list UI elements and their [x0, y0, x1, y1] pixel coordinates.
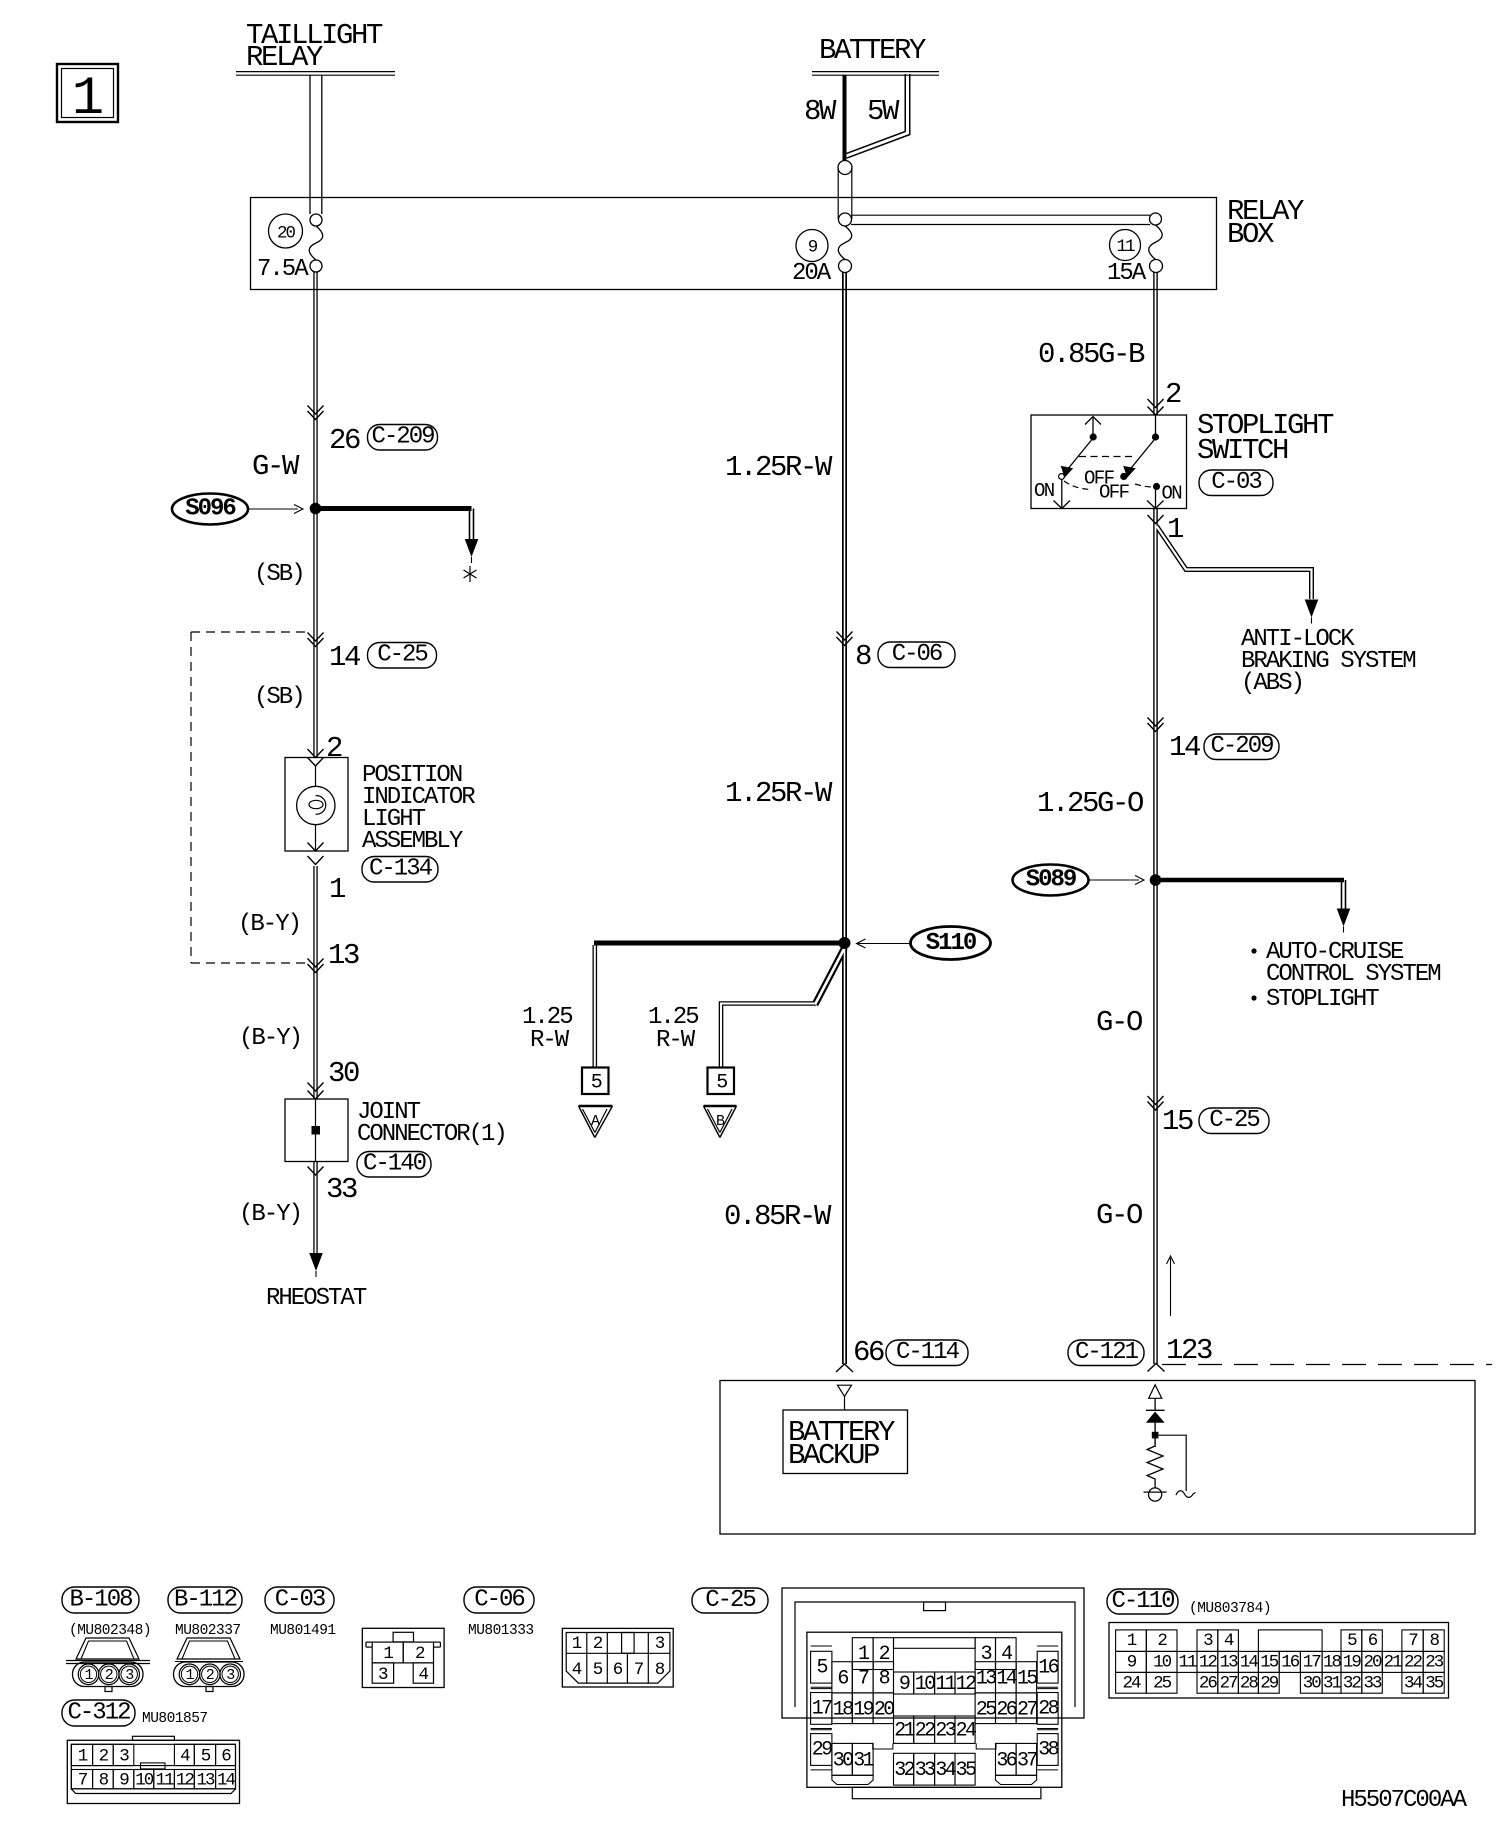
svg-text:8: 8: [879, 1667, 890, 1690]
svg-text:12: 12: [1199, 1653, 1218, 1673]
svg-text:G-O: G-O: [1096, 1006, 1142, 1039]
svg-text:18: 18: [833, 1698, 853, 1721]
svg-text:13: 13: [1220, 1653, 1239, 1673]
svg-text:24: 24: [1122, 1674, 1141, 1694]
svg-text:3: 3: [125, 1667, 134, 1684]
svg-text:2: 2: [326, 732, 342, 765]
svg-text:ON: ON: [1162, 483, 1182, 505]
svg-text:35: 35: [956, 1759, 976, 1782]
svg-text:8: 8: [655, 1660, 665, 1680]
svg-text:C-209: C-209: [1210, 733, 1273, 760]
svg-text:10: 10: [135, 1770, 154, 1790]
svg-text:1: 1: [84, 1667, 93, 1684]
svg-text:34: 34: [935, 1759, 955, 1782]
svg-text:21: 21: [1384, 1653, 1403, 1673]
svg-text:2: 2: [206, 1667, 214, 1684]
svg-text:17: 17: [812, 1698, 832, 1721]
svg-text:ON: ON: [1034, 480, 1054, 502]
svg-text:2: 2: [1165, 378, 1181, 411]
svg-text:1.25R-W: 1.25R-W: [725, 451, 833, 484]
svg-text:C-209: C-209: [371, 424, 434, 451]
svg-text:BOX: BOX: [1227, 218, 1274, 251]
svg-text:C-140: C-140: [363, 1151, 426, 1178]
svg-text:15: 15: [1260, 1653, 1279, 1673]
svg-text:8: 8: [855, 640, 871, 673]
svg-text:MU802337: MU802337: [175, 1623, 241, 1639]
svg-text:B: B: [716, 1113, 725, 1130]
svg-text:(MU803784): (MU803784): [1189, 1601, 1271, 1617]
svg-text:RELAY: RELAY: [246, 41, 323, 74]
svg-text:B-108: B-108: [69, 1586, 132, 1613]
svg-text:20: 20: [1364, 1653, 1383, 1673]
svg-text:G-W: G-W: [252, 450, 300, 483]
svg-text:9: 9: [899, 1673, 910, 1696]
svg-text:(B-Y): (B-Y): [238, 911, 300, 938]
svg-text:C-25: C-25: [705, 1587, 755, 1614]
svg-text:(B-Y): (B-Y): [239, 1025, 301, 1052]
svg-text:11: 11: [156, 1770, 175, 1790]
svg-text:33: 33: [1364, 1674, 1383, 1694]
svg-text:27: 27: [1017, 1698, 1037, 1721]
svg-text:2: 2: [1157, 1631, 1167, 1651]
svg-text:30: 30: [328, 1057, 359, 1090]
svg-text:21: 21: [894, 1720, 915, 1743]
svg-text:5: 5: [201, 1747, 211, 1767]
svg-text:C-121: C-121: [1075, 1339, 1139, 1366]
svg-text:5: 5: [593, 1660, 603, 1680]
svg-text:2: 2: [593, 1634, 603, 1654]
svg-text:14: 14: [217, 1770, 236, 1790]
svg-text:5: 5: [716, 1072, 727, 1095]
svg-text:32: 32: [1343, 1674, 1362, 1694]
svg-text:(SB): (SB): [254, 561, 304, 588]
svg-text:14: 14: [1240, 1653, 1259, 1673]
svg-text:11: 11: [1116, 237, 1135, 257]
svg-text:2: 2: [105, 1667, 113, 1684]
svg-text:C-25: C-25: [1209, 1107, 1259, 1134]
svg-text:9: 9: [119, 1770, 129, 1790]
svg-text:BATTERY: BATTERY: [819, 34, 926, 67]
svg-text:C-110: C-110: [1111, 1588, 1174, 1615]
svg-text:6: 6: [613, 1660, 623, 1680]
svg-text:11: 11: [1178, 1653, 1197, 1673]
svg-text:6: 6: [837, 1667, 848, 1690]
svg-text:12: 12: [956, 1673, 976, 1696]
svg-text:28: 28: [1240, 1674, 1259, 1694]
svg-text:STOPLIGHT: STOPLIGHT: [1266, 986, 1379, 1013]
svg-text:1: 1: [1127, 1631, 1137, 1651]
svg-text:B-112: B-112: [174, 1586, 237, 1613]
svg-text:29: 29: [1260, 1674, 1279, 1694]
svg-text:31: 31: [1323, 1674, 1342, 1694]
svg-text:11: 11: [935, 1673, 956, 1696]
svg-text:23: 23: [1425, 1653, 1444, 1673]
svg-text:1: 1: [72, 69, 104, 130]
svg-text:15: 15: [1017, 1667, 1037, 1690]
svg-text:23: 23: [935, 1720, 955, 1743]
svg-text:13: 13: [328, 939, 359, 972]
svg-text:RHEOSTAT: RHEOSTAT: [266, 1285, 367, 1312]
svg-text:(B-Y): (B-Y): [239, 1201, 301, 1228]
svg-text:10: 10: [1153, 1653, 1172, 1673]
svg-text:4: 4: [1001, 1643, 1012, 1666]
svg-text:31: 31: [853, 1749, 874, 1772]
svg-text:35: 35: [1425, 1674, 1444, 1694]
svg-text:14: 14: [996, 1667, 1016, 1690]
svg-text:SWITCH: SWITCH: [1197, 434, 1288, 467]
svg-text:0.85R-W: 0.85R-W: [724, 1200, 832, 1233]
svg-text:1: 1: [329, 873, 345, 906]
svg-text:5: 5: [816, 1656, 827, 1679]
svg-text:ASSEMBLY: ASSEMBLY: [362, 828, 463, 855]
svg-text:13: 13: [976, 1667, 996, 1690]
svg-text:R-W: R-W: [656, 1027, 696, 1054]
svg-text:66: 66: [853, 1336, 884, 1369]
svg-text:C-134: C-134: [369, 856, 433, 883]
svg-text:18: 18: [1323, 1653, 1342, 1673]
svg-text:6: 6: [1368, 1631, 1378, 1651]
svg-text:7: 7: [78, 1770, 88, 1790]
svg-text:MU801491: MU801491: [270, 1623, 336, 1639]
svg-text:S096: S096: [185, 496, 236, 523]
svg-text:123: 123: [1166, 1334, 1212, 1367]
svg-text:8: 8: [99, 1770, 109, 1790]
svg-text:19: 19: [1343, 1653, 1362, 1673]
svg-text:4: 4: [1224, 1631, 1234, 1651]
svg-text:2: 2: [99, 1747, 109, 1767]
svg-text:1: 1: [1167, 513, 1183, 546]
svg-text:33: 33: [326, 1173, 357, 1206]
svg-text:R-W: R-W: [530, 1027, 570, 1054]
svg-text:15A: 15A: [1107, 260, 1147, 287]
svg-text:9: 9: [1127, 1653, 1137, 1673]
svg-text:25: 25: [976, 1698, 996, 1721]
svg-text:19: 19: [853, 1698, 873, 1721]
svg-text:26: 26: [329, 424, 360, 457]
svg-text:1: 1: [383, 1644, 393, 1664]
svg-text:24: 24: [956, 1720, 976, 1743]
svg-text:C-03: C-03: [275, 1586, 325, 1613]
svg-text:0.85G-B: 0.85G-B: [1038, 338, 1145, 371]
svg-text:(ABS): (ABS): [1241, 670, 1303, 697]
svg-text:16: 16: [1281, 1653, 1300, 1673]
svg-text:20A: 20A: [792, 260, 832, 287]
svg-text:4: 4: [572, 1660, 582, 1680]
svg-text:4: 4: [419, 1665, 429, 1685]
svg-text:4: 4: [180, 1747, 190, 1767]
svg-text:MU801857: MU801857: [142, 1711, 208, 1727]
svg-text:36: 36: [996, 1749, 1016, 1772]
svg-text:10: 10: [915, 1673, 935, 1696]
svg-text:26: 26: [996, 1698, 1016, 1721]
svg-text:9: 9: [808, 238, 818, 258]
svg-text:C-06: C-06: [474, 1586, 524, 1613]
svg-text:1.25R-W: 1.25R-W: [725, 777, 833, 810]
svg-text:MU801333: MU801333: [468, 1623, 534, 1639]
svg-text:22: 22: [1404, 1653, 1423, 1673]
svg-text:7: 7: [634, 1660, 644, 1680]
svg-text:17: 17: [1303, 1653, 1322, 1673]
svg-text:C-06: C-06: [892, 641, 942, 668]
svg-text:7: 7: [1408, 1631, 1418, 1651]
svg-text:37: 37: [1017, 1749, 1037, 1772]
svg-text:A: A: [591, 1113, 600, 1130]
svg-text:3: 3: [119, 1747, 129, 1767]
svg-text:C-25: C-25: [377, 642, 427, 669]
svg-text:26: 26: [1199, 1674, 1218, 1694]
svg-text:CONTROL SYSTEM: CONTROL SYSTEM: [1266, 961, 1440, 988]
svg-text:CONNECTOR(1): CONNECTOR(1): [357, 1121, 506, 1148]
svg-text:14: 14: [1169, 731, 1200, 764]
svg-text:H5507C00AA: H5507C00AA: [1341, 1787, 1468, 1814]
svg-text:1: 1: [78, 1747, 88, 1767]
svg-text:3: 3: [378, 1665, 388, 1685]
svg-text:15: 15: [1162, 1105, 1193, 1138]
svg-text:33: 33: [915, 1759, 935, 1782]
svg-text:C-312: C-312: [67, 1699, 130, 1726]
svg-text:30: 30: [833, 1749, 853, 1772]
svg-text:S089: S089: [1026, 867, 1076, 894]
svg-text:1.25G-O: 1.25G-O: [1037, 787, 1143, 820]
svg-text:12: 12: [176, 1770, 195, 1790]
svg-text:C-03: C-03: [1211, 469, 1261, 496]
svg-text:38: 38: [1038, 1739, 1058, 1762]
svg-text:30: 30: [1303, 1674, 1322, 1694]
svg-text:S110: S110: [926, 930, 977, 957]
svg-text:34: 34: [1404, 1674, 1423, 1694]
svg-text:7: 7: [858, 1667, 869, 1690]
svg-text:20: 20: [874, 1698, 894, 1721]
svg-text:(SB): (SB): [254, 684, 304, 711]
svg-text:6: 6: [221, 1747, 231, 1767]
svg-text:(MU802348): (MU802348): [69, 1623, 151, 1639]
svg-text:20: 20: [277, 224, 296, 244]
svg-text:C-114: C-114: [896, 1339, 960, 1366]
svg-text:13: 13: [196, 1770, 215, 1790]
svg-text:16: 16: [1038, 1656, 1058, 1679]
svg-text:28: 28: [1038, 1698, 1058, 1721]
svg-text:G-O: G-O: [1096, 1199, 1142, 1232]
svg-text:5: 5: [591, 1072, 602, 1095]
svg-text:25: 25: [1153, 1674, 1172, 1694]
svg-text:5: 5: [1347, 1631, 1357, 1651]
svg-text:32: 32: [894, 1759, 914, 1782]
svg-text:8: 8: [1429, 1631, 1439, 1651]
svg-text:3: 3: [655, 1634, 665, 1654]
svg-text:7.5A: 7.5A: [257, 256, 309, 283]
svg-text:3: 3: [1203, 1631, 1213, 1651]
svg-text:14: 14: [329, 641, 360, 674]
svg-text:3: 3: [226, 1667, 235, 1684]
svg-text:5W: 5W: [867, 95, 900, 128]
svg-text:29: 29: [812, 1739, 832, 1762]
svg-text:8W: 8W: [804, 95, 837, 128]
svg-text:1: 1: [185, 1667, 194, 1684]
svg-text:1: 1: [572, 1634, 582, 1654]
svg-text:27: 27: [1220, 1674, 1239, 1694]
svg-text:2: 2: [415, 1644, 425, 1664]
svg-text:OFF: OFF: [1099, 482, 1130, 504]
svg-text:22: 22: [915, 1720, 935, 1743]
svg-text:BACKUP: BACKUP: [788, 1439, 879, 1472]
svg-text:3: 3: [981, 1643, 992, 1666]
svg-text:2: 2: [879, 1643, 890, 1666]
